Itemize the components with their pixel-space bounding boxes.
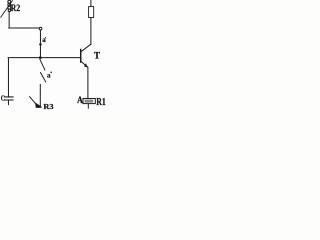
svg-text:a: a: [42, 36, 46, 44]
svg-text:C: C: [1, 94, 5, 103]
svg-text:R2: R2: [11, 3, 21, 14]
svg-text:R1: R1: [96, 97, 106, 108]
svg-text:T: T: [94, 51, 100, 61]
svg-text:A: A: [77, 95, 83, 106]
svg-text:a: a: [47, 72, 51, 80]
svg-text:R3: R3: [43, 102, 53, 110]
